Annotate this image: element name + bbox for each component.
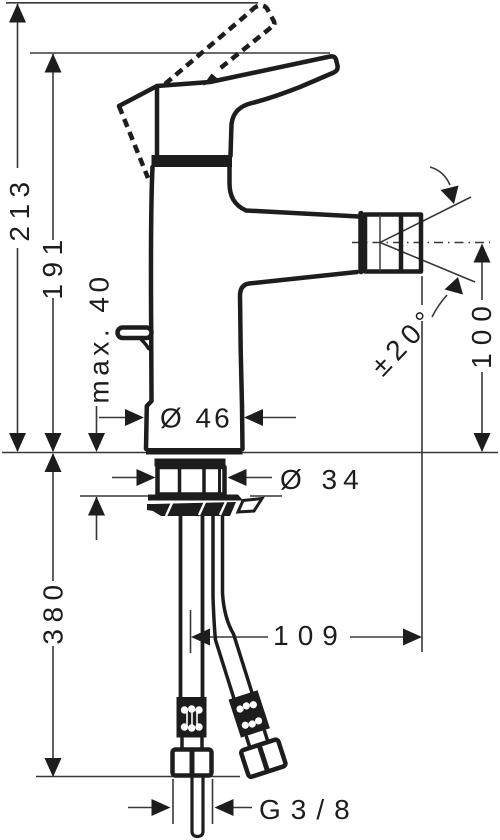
- svg-text:Ø 46: Ø 46: [160, 403, 233, 434]
- svg-text:G3/8: G3/8: [259, 794, 360, 825]
- svg-text:109: 109: [273, 620, 347, 651]
- svg-text:max. 40: max. 40: [84, 272, 115, 403]
- svg-text:Ø 34: Ø 34: [280, 464, 365, 495]
- svg-text:213: 213: [4, 175, 35, 241]
- svg-text:100: 100: [466, 298, 497, 369]
- svg-text:380: 380: [38, 578, 69, 644]
- svg-text:191: 191: [37, 233, 68, 299]
